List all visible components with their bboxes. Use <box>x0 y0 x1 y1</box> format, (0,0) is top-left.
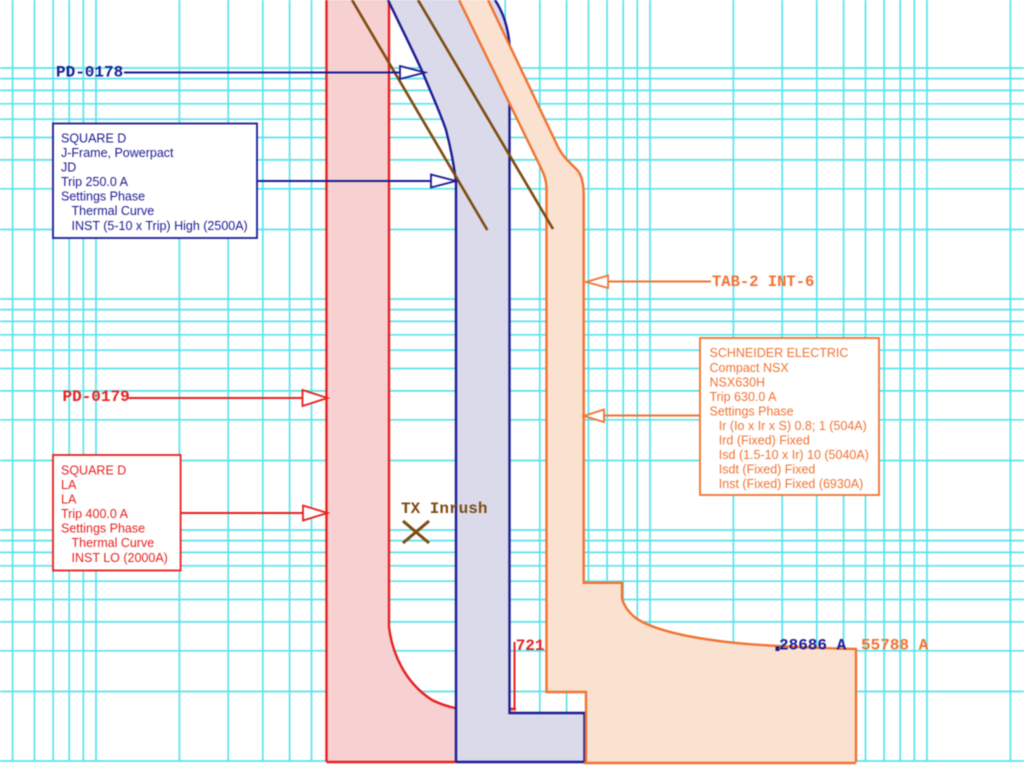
fault current tick <box>514 642 516 709</box>
curve band PD-0179 fill <box>327 0 517 762</box>
svg-text:SQUARE D: SQUARE D <box>61 132 126 146</box>
damage curve line left <box>352 0 487 230</box>
svg-text:PD-0179: PD-0179 <box>63 388 130 406</box>
svg-text:Settings Phase: Settings Phase <box>61 190 145 204</box>
device info box TAB-2 (Schneider NSX630H) <box>700 338 879 495</box>
svg-text:TAB-2 INT-6: TAB-2 INT-6 <box>712 273 814 291</box>
curve TAB-2 right edge <box>488 0 856 762</box>
svg-text:55788 A: 55788 A <box>861 637 929 655</box>
svg-text:JD: JD <box>61 161 76 175</box>
curve band TAB-2 INT-6 fill <box>459 0 856 762</box>
curve TAB-2 bottom edge <box>584 762 856 764</box>
svg-text:SCHNEIDER ELECTRIC: SCHNEIDER ELECTRIC <box>710 346 849 360</box>
svg-text:SQUARE D: SQUARE D <box>61 464 126 478</box>
arrow TAB-2 INT-6 <box>608 281 711 283</box>
curve PD-0179 left edge <box>325 0 327 762</box>
svg-text:PD-0178: PD-0178 <box>56 64 123 82</box>
svg-text:Settings Phase: Settings Phase <box>710 404 794 418</box>
svg-text:Settings Phase: Settings Phase <box>61 522 145 536</box>
svg-text:Thermal Curve: Thermal Curve <box>72 536 155 550</box>
arrow PD-0179 <box>129 397 303 399</box>
svg-text:INST LO (2000A): INST LO (2000A) <box>72 551 168 565</box>
svg-text:Isdt (Fixed) Fixed: Isdt (Fixed) Fixed <box>719 463 816 477</box>
curve PD-0178 bottom edge <box>456 761 585 763</box>
svg-text:LA: LA <box>61 478 77 492</box>
arrow from LA box <box>181 512 303 514</box>
arrow PD-0178 <box>124 72 400 74</box>
svg-text:Trip 630.0 A: Trip 630.0 A <box>710 390 778 404</box>
svg-text:J-Frame, Powerpact: J-Frame, Powerpact <box>61 146 174 160</box>
curve PD-0179 bottom edge <box>327 761 457 763</box>
svg-text:Ird (Fixed) Fixed: Ird (Fixed) Fixed <box>719 434 810 448</box>
arrow from JD box <box>257 180 431 182</box>
svg-text:Inst (Fixed) Fixed (6930A): Inst (Fixed) Fixed (6930A) <box>719 477 864 491</box>
svg-text:28686 A: 28686 A <box>779 637 847 655</box>
curve TAB-2 left edge <box>459 0 586 762</box>
svg-text:LA: LA <box>61 493 77 507</box>
svg-text:INST (5-10 x Trip) High (2500A: INST (5-10 x Trip) High (2500A) <box>72 219 248 233</box>
svg-text:NSX630H: NSX630H <box>710 375 766 389</box>
svg-text:TX Inrush: TX Inrush <box>401 500 487 518</box>
curve band PD-0178 fill <box>388 0 585 762</box>
device info box PD-0178 (Square D JD) <box>53 124 257 239</box>
curve PD-0179 right edge <box>389 0 516 709</box>
svg-text:Thermal Curve: Thermal Curve <box>72 204 155 218</box>
device info box PD-0179 (Square D LA) <box>53 455 181 571</box>
svg-text:Trip 250.0 A: Trip 250.0 A <box>61 175 129 189</box>
TX Inrush X marker <box>403 521 429 543</box>
curve PD-0178 left edge <box>388 0 456 762</box>
arrow from NSX box <box>604 415 700 417</box>
curve PD-0178 right edge <box>495 0 585 762</box>
svg-text:Ir (Io x Ir x S) 0.8; 1 (504A): Ir (Io x Ir x S) 0.8; 1 (504A) <box>719 419 867 433</box>
svg-text:Trip 400.0 A: Trip 400.0 A <box>61 507 129 521</box>
svg-text:Isd (1.5-10 x Ir) 10 (5040A): Isd (1.5-10 x Ir) 10 (5040A) <box>719 448 869 462</box>
fault current marker dot <box>776 647 780 652</box>
damage curve line right <box>418 0 553 229</box>
svg-text:Compact NSX: Compact NSX <box>710 361 790 375</box>
